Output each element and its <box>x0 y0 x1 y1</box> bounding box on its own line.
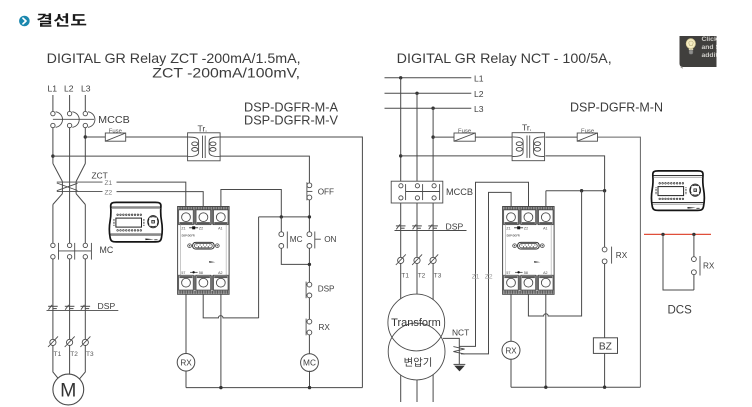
label DSP (right overload) <box>446 222 464 232</box>
left model label DSP-DGFR-M-V <box>244 113 338 128</box>
coil RX (left) <box>177 354 195 372</box>
wire R-phase A drop <box>400 78 402 181</box>
contact RX (DCS) <box>692 256 715 276</box>
svg-text:and S: and S <box>702 44 721 51</box>
transformer Tr (left) <box>188 124 221 161</box>
junction dot DCS right <box>692 233 695 236</box>
wire RX contact to BZ <box>604 264 606 338</box>
svg-text:NCT: NCT <box>452 327 469 337</box>
label MCCB (left) <box>98 115 130 126</box>
contactor MC pole 3 <box>83 243 91 260</box>
svg-text:Z1: Z1 <box>105 180 113 187</box>
label NCT <box>452 327 469 337</box>
wire L3 tap to fuse <box>433 136 454 138</box>
page title 결선도 <box>37 13 86 27</box>
breaker MCCB pole 1 <box>51 111 63 127</box>
coil MC <box>301 354 319 372</box>
bottom rail right schematic <box>511 386 640 388</box>
wire phase C DSP to CT <box>84 306 86 339</box>
svg-text:RX: RX <box>180 358 192 367</box>
junction dot L3 <box>431 107 434 110</box>
svg-text:Transform: Transform <box>391 317 441 329</box>
junction dot MCcoil/rail <box>308 386 311 389</box>
wire L3 breaker to junction <box>84 128 86 164</box>
DSP underline <box>47 309 119 311</box>
NCT zigzag <box>453 347 464 355</box>
wire RX coil right to rail <box>510 359 512 387</box>
svg-text:T3: T3 <box>434 273 442 280</box>
wire bar down to 58 line <box>258 217 260 318</box>
junction dot bar/BZ line <box>603 189 606 192</box>
svg-text:Tr.: Tr. <box>198 124 208 134</box>
contactor MC pole 2 <box>67 243 74 260</box>
wire phase C MC to DSP <box>84 259 86 306</box>
svg-text:DSP: DSP <box>446 222 464 232</box>
wire neutral to NCT <box>443 338 459 364</box>
wire junction bar y217 <box>259 216 310 218</box>
right circuit title <box>397 51 612 66</box>
svg-text:T2: T2 <box>70 351 78 358</box>
svg-text:Tr.: Tr. <box>522 122 532 132</box>
pushbutton RX <box>306 319 330 336</box>
label Z1 <box>105 180 113 187</box>
wire terminal A2 to rail <box>220 294 222 387</box>
wire Z2 relay2 <box>461 192 511 354</box>
relay U1 (DSP-DGFR left) <box>178 207 230 295</box>
junction dot DCS left <box>661 233 664 236</box>
wire MC aux lower to merge <box>281 248 309 264</box>
breaker linkage wire <box>53 118 94 120</box>
svg-text:MC: MC <box>290 235 303 244</box>
wire L1 to transformer (lower) <box>53 155 188 157</box>
tooltip popup <box>680 36 721 69</box>
wire R-phase B through transformer <box>416 264 418 403</box>
left circuit title line 2 <box>152 66 300 81</box>
svg-text:T1: T1 <box>401 273 409 280</box>
junction dot merge <box>308 263 311 266</box>
contact MC aux <box>279 232 303 249</box>
node L3 (left) <box>81 84 91 94</box>
left circuit title line 1 <box>47 51 301 66</box>
wire phase A MC to DSP <box>52 259 54 306</box>
svg-text:RX: RX <box>616 251 628 260</box>
wire Tr lower output to OFF <box>220 156 309 183</box>
wire phase B DSP to CT <box>69 306 71 339</box>
right model label DSP-DGFR-M-N <box>570 100 663 115</box>
wire terminal 58 to control <box>203 294 258 318</box>
contact RX (BZ branch) <box>602 247 628 264</box>
CT right T3 <box>428 254 438 265</box>
wire L1 to MC contact <box>52 205 54 244</box>
svg-text:RX: RX <box>505 346 517 355</box>
label MCCB (right) <box>446 187 473 197</box>
svg-text:ON: ON <box>324 235 336 244</box>
overload DSP element 2 <box>65 305 75 310</box>
wire DCS right leg lower <box>693 275 695 290</box>
wire L3 to fuse F1 <box>85 136 105 138</box>
wire L3 to MC contact <box>84 205 86 244</box>
wire MC aux branch upper <box>280 217 282 232</box>
wire MC coil to rail <box>309 371 311 388</box>
ZCT core and label <box>57 171 108 192</box>
svg-text:DSP-DGFR-M-N: DSP-DGFR-M-N <box>570 100 663 115</box>
svg-text:DIGITAL GR Relay NCT - 100/5A,: DIGITAL GR Relay NCT - 100/5A, <box>397 51 612 66</box>
junction dot L2 <box>415 92 418 95</box>
wire R-phase C through transformer <box>432 264 434 403</box>
pushbutton DSP <box>306 282 335 299</box>
junction dot A2r/rail <box>544 386 547 389</box>
junction dot bar/OFF <box>308 215 311 218</box>
wire L2 breaker down <box>69 128 71 244</box>
wire A1 drop relay2 <box>545 191 547 207</box>
label DCS <box>668 305 693 317</box>
wire R-phase C to CT <box>432 226 434 257</box>
label Z2 (right) <box>485 274 493 281</box>
junction on L1 for return line <box>51 154 54 157</box>
svg-text:addit: addit <box>702 52 719 59</box>
junction dot A1/bar <box>280 215 283 218</box>
svg-text:MC: MC <box>303 358 316 368</box>
wire A1 riser <box>221 190 281 217</box>
svg-text:DCS: DCS <box>668 305 693 317</box>
svg-text:Z2: Z2 <box>485 274 493 281</box>
bottom rail left schematic <box>186 387 362 389</box>
wire OFF to junction <box>308 200 310 232</box>
overload DSP element 1 <box>48 305 58 310</box>
wire phase A DSP to CT <box>52 306 54 339</box>
svg-text:MC: MC <box>100 245 114 255</box>
transformer Tr2 <box>512 122 545 160</box>
svg-text:T2: T2 <box>418 273 426 280</box>
overload DSP right 1 <box>396 225 406 230</box>
svg-text:MCCB: MCCB <box>446 187 473 197</box>
left model label DSP-DGFR-M-A <box>244 100 338 115</box>
svg-text:Z2: Z2 <box>105 190 113 197</box>
svg-text:T1: T1 <box>54 351 62 358</box>
label T3 right <box>434 273 442 280</box>
DSP underline right <box>395 230 467 232</box>
pushbutton ON <box>307 232 337 249</box>
overload DSP right 2 <box>412 225 422 230</box>
CT T2 <box>65 336 75 347</box>
svg-text:L2: L2 <box>474 89 484 99</box>
bus L3 <box>385 104 484 114</box>
wire Tr2 lower output <box>545 156 604 191</box>
wire R-phase C below MCCB <box>432 203 434 226</box>
coil RX (right) <box>502 341 520 359</box>
wire phase B to motor <box>69 346 71 375</box>
junction dot L1 tap lower <box>399 154 402 157</box>
svg-text:L3: L3 <box>81 84 91 94</box>
wire fuse F1 to transformer <box>126 136 188 138</box>
node L2 (left) <box>64 84 74 94</box>
wire Tr2 to fuse F3 <box>545 136 577 138</box>
wire control bar y190 <box>546 190 605 192</box>
wire L2 drop to breaker <box>69 95 71 111</box>
motor M <box>53 374 84 405</box>
transformer body circles <box>388 294 445 380</box>
CT T1 <box>48 336 58 347</box>
breaker MCCB pole 3 <box>83 111 95 127</box>
wire phase C to motor <box>78 346 86 382</box>
contactor MC linkage <box>59 250 92 252</box>
svg-text:MCCB: MCCB <box>98 115 130 126</box>
pushbutton OFF <box>307 182 334 200</box>
svg-text:ZCT -200mA/100mV,: ZCT -200mA/100mV, <box>152 66 300 81</box>
product photo right <box>651 171 704 211</box>
ZCT funnel left <box>53 164 63 205</box>
svg-text:DSP: DSP <box>318 285 335 294</box>
node L1 (left) <box>48 84 58 94</box>
bus L1 <box>385 74 484 84</box>
wire terminal 57 right to RX coil <box>510 294 512 342</box>
wire Tr to right rail (top) <box>220 137 362 388</box>
label T1 right <box>401 273 409 280</box>
wire RX to MC coil <box>308 335 310 354</box>
svg-text:DSP-DGFR-M-V: DSP-DGFR-M-V <box>244 113 338 128</box>
ground symbol <box>454 364 466 371</box>
wire L1 tap to Tr2 lower <box>401 155 512 157</box>
wire DCS right leg upper <box>693 234 695 256</box>
wire DCS left leg <box>663 234 694 290</box>
svg-text:OFF: OFF <box>318 187 334 196</box>
DCS red feeder <box>644 233 711 235</box>
wire ON lower to merge <box>308 248 310 282</box>
wire Z2 to relay terminal 2 <box>117 192 204 207</box>
wire R-phase A below MCCB <box>400 203 402 226</box>
wire phase A to motor <box>53 346 61 382</box>
wire R-phase B to CT <box>416 226 418 257</box>
svg-text:Click: Click <box>702 36 718 43</box>
junction dot bar/58 riser <box>580 189 583 192</box>
label T2 <box>70 351 78 358</box>
wire L3 drop to breaker <box>84 95 86 111</box>
wire BZ to rail <box>604 353 606 387</box>
svg-text:L1: L1 <box>474 74 484 84</box>
relay U2 (DSP-DGFR right) <box>503 207 554 295</box>
svg-text:L1: L1 <box>48 84 58 94</box>
wire terminal 58 right to control <box>528 191 581 316</box>
header bullet icon <box>19 16 30 27</box>
label T3 <box>86 351 94 358</box>
wire R-phase B drop <box>416 93 418 181</box>
wire R-phase C drop <box>432 108 434 181</box>
svg-text:BZ: BZ <box>599 342 612 353</box>
buzzer BZ <box>593 338 617 354</box>
label Z2 <box>105 190 113 197</box>
label T1 <box>54 351 62 358</box>
wire terminal 57 to RX coil <box>185 294 187 354</box>
svg-text:T3: T3 <box>86 351 94 358</box>
junction on L3 for fuse <box>84 135 87 138</box>
junction dot fuse tap <box>431 135 434 138</box>
label T2 right <box>418 273 426 280</box>
svg-text:DSP: DSP <box>98 301 116 311</box>
label MC (main contactor) <box>100 245 114 255</box>
CT right T2 <box>412 254 422 265</box>
svg-text:Z1: Z1 <box>472 274 480 281</box>
wire phase B MC to DSP <box>69 259 71 306</box>
fuse F3 <box>577 128 597 141</box>
ZCT funnel right <box>76 164 85 205</box>
contactor MC pole 1 <box>51 243 59 260</box>
svg-text:M: M <box>60 380 76 402</box>
MCCB box right <box>391 181 443 203</box>
CT T3 <box>80 336 90 347</box>
label DSP (left overload) <box>98 301 116 311</box>
svg-text:L3: L3 <box>474 104 484 114</box>
fuse F1 <box>105 128 125 141</box>
breaker MCCB pole 2 <box>67 111 79 127</box>
wire BZ line upper <box>604 191 606 247</box>
product photo left <box>109 202 162 242</box>
wire R-phase A to CT <box>400 226 402 257</box>
wire DSP to RX <box>308 298 310 319</box>
label Z1 (right) <box>472 274 480 281</box>
overload DSP element 3 <box>81 305 91 310</box>
svg-text:RX: RX <box>703 261 715 270</box>
wire RX coil to rail <box>185 371 187 388</box>
wire fuse F2 to Tr2 <box>475 136 512 138</box>
wire Z1 relay2 <box>459 182 528 346</box>
junction dot L1 <box>399 76 402 79</box>
junction dot BZ/rail <box>603 386 606 389</box>
bus L2 <box>385 89 484 99</box>
wire R-phase A through transformer <box>400 264 402 403</box>
svg-text:RX: RX <box>319 323 331 332</box>
svg-text:L2: L2 <box>64 84 74 94</box>
wire fuse F3 to right rail <box>598 137 641 387</box>
wire L1 drop to breaker <box>52 95 54 111</box>
fuse F2 <box>454 128 475 141</box>
CT right T1 <box>396 254 406 265</box>
wire terminal A2 right to rail <box>545 294 547 387</box>
wire R-phase B below MCCB <box>416 203 418 226</box>
overload DSP right 3 <box>428 225 438 230</box>
wire L1 breaker to junction <box>52 128 54 164</box>
junction dot A2/rail <box>219 386 222 389</box>
svg-text:DIGITAL GR Relay ZCT -200mA/1.: DIGITAL GR Relay ZCT -200mA/1.5mA, <box>47 51 301 66</box>
wire Z1 to relay terminal 1 <box>117 182 186 206</box>
